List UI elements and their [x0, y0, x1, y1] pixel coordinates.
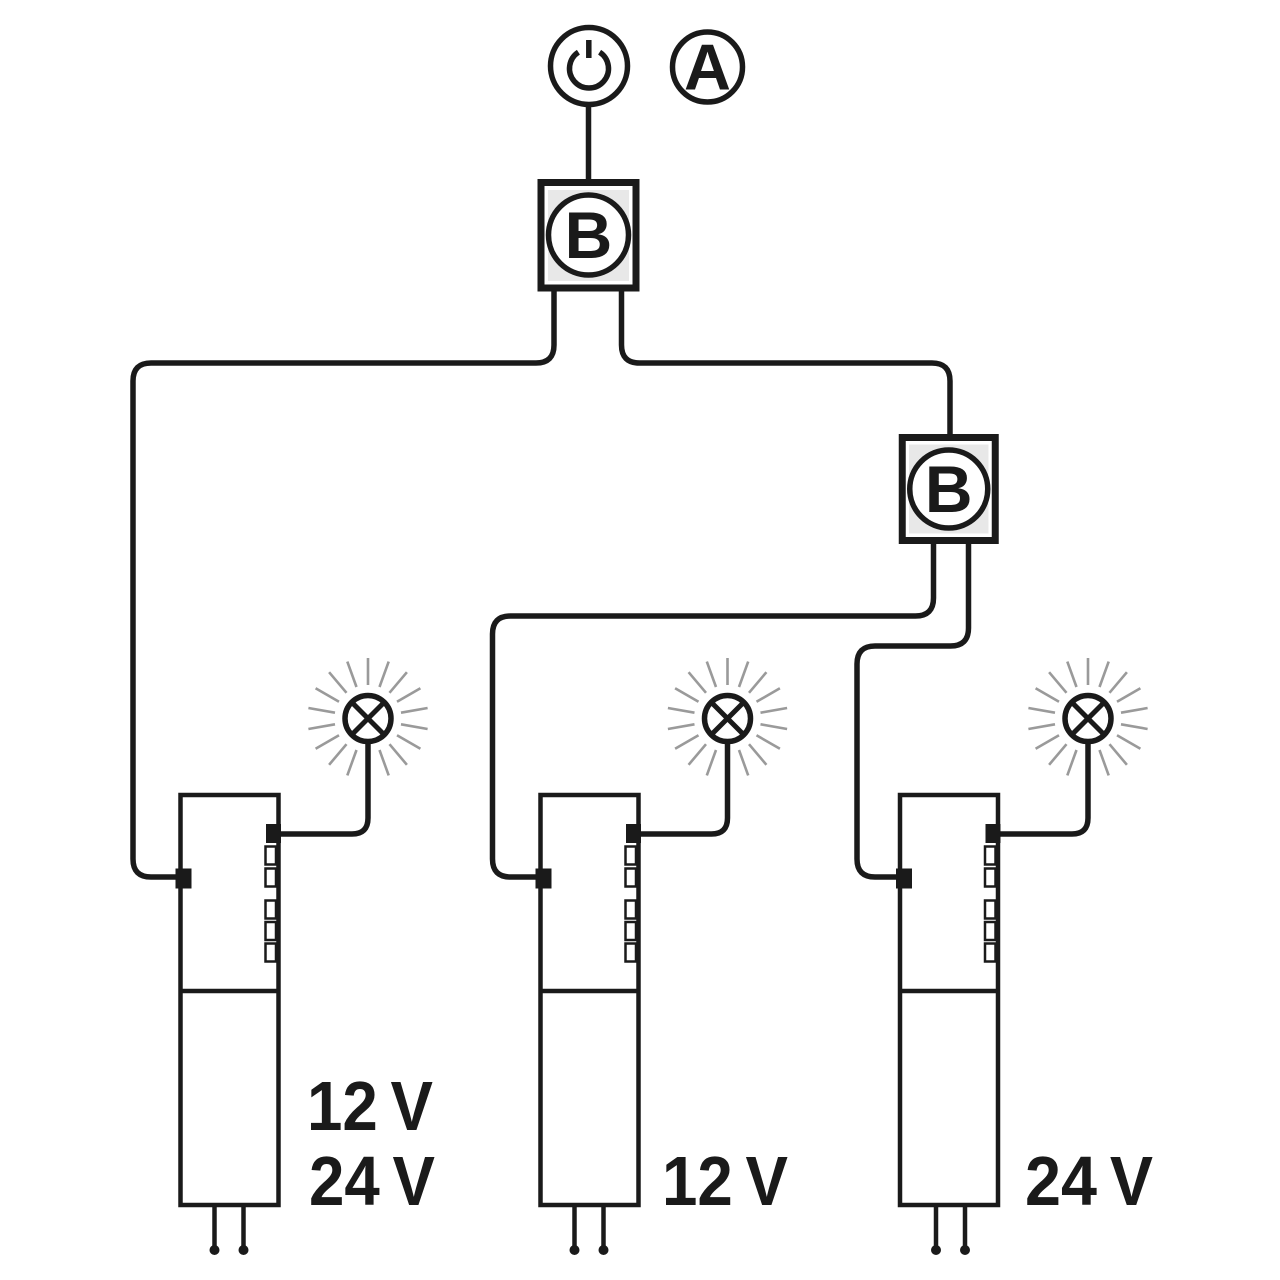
svg-text:24 V: 24 V — [1025, 1142, 1153, 1220]
svg-text:12 V: 12 V — [662, 1142, 788, 1220]
distributor box B2 — [902, 438, 995, 541]
driver 2 body — [541, 795, 639, 1205]
wire driver 1 output to lamp 1 — [280, 743, 368, 834]
driver 3 body — [900, 795, 998, 1205]
driver 3 dip blocks — [985, 847, 996, 962]
driver 2 section divider — [541, 989, 639, 994]
wire B1 left output to driver 1 input — [133, 290, 554, 877]
B2 circle label — [910, 450, 988, 528]
svg-text:A: A — [684, 31, 731, 104]
driver 3 section divider — [900, 989, 998, 994]
driver 1 output connector — [266, 824, 281, 843]
wire B1 right output to distributor B2 — [622, 290, 951, 436]
driver 2 dip blocks — [626, 847, 637, 962]
svg-text:24 V: 24 V — [309, 1142, 435, 1220]
driver 3 input connector — [896, 869, 912, 889]
driver 1 dip blocks — [266, 847, 277, 962]
driver 3 output connector — [986, 824, 1001, 843]
wire B2 right output to driver 3 input — [857, 540, 969, 877]
driver 1 mains pins — [212, 1205, 217, 1246]
driver 3 mains pins — [934, 1205, 939, 1246]
LED driver 1 (12 V / 24 V) — [176, 795, 282, 1255]
driver 2 input connector — [536, 869, 552, 889]
power button icon — [551, 28, 628, 105]
lamp 2 — [705, 696, 751, 742]
svg-text:B: B — [565, 198, 613, 272]
wire B2 left output to driver 2 input — [493, 540, 934, 877]
lamp 3 — [1065, 696, 1111, 742]
svg-text:12 V: 12 V — [307, 1067, 433, 1145]
lamp 3 rays — [1028, 658, 1147, 775]
wire driver 2 output to lamp 2 — [640, 743, 728, 834]
LED driver 3 (24 V) — [896, 795, 1001, 1255]
lamp 1 — [345, 696, 391, 742]
LED driver 2 (12 V) — [536, 795, 642, 1255]
driver 1 input connector — [176, 869, 192, 889]
distributor box B1 — [541, 183, 636, 289]
B1 circle label — [549, 195, 629, 275]
lamp 1 rays — [308, 658, 427, 775]
driver 1 section divider — [181, 989, 279, 994]
driver 2 mains pins — [572, 1205, 577, 1246]
driver 1 body — [181, 795, 279, 1205]
driver 2 output connector — [626, 824, 641, 843]
wire driver 3 output to lamp 3 — [999, 743, 1088, 834]
label A — [673, 31, 743, 104]
lamp 2 rays — [668, 658, 787, 775]
wire power button to distributor B1 — [586, 105, 592, 182]
svg-text:B: B — [925, 452, 973, 526]
